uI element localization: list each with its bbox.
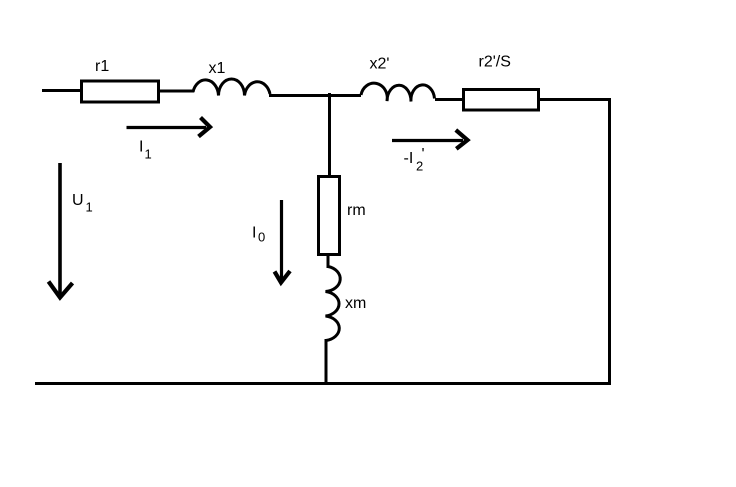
current arrow I1 shaft [127, 126, 207, 129]
svg-text:': ' [422, 146, 425, 163]
wire: bottom rail [35, 382, 611, 385]
inductor L1 (x1) [193, 79, 270, 96]
inductor L2 (x2') [361, 83, 435, 101]
current arrow I0 head [275, 271, 291, 283]
wire: top-left lead into r1 [42, 89, 81, 92]
wire: node T to x2' [329, 94, 361, 97]
svg-text:x2': x2' [370, 56, 390, 73]
svg-text:I: I [139, 138, 143, 155]
svg-text:-I: -I [404, 150, 414, 167]
wire: node T down to rm [328, 93, 331, 177]
wire: rm to xm stub [327, 254, 330, 268]
current arrow I0 shaft [280, 200, 283, 280]
wire: xm to bottom rail [325, 339, 328, 385]
wire: r1 to x1 [160, 90, 194, 93]
svg-text:r1: r1 [95, 58, 109, 75]
svg-text:U: U [72, 192, 84, 209]
svg-text:rm: rm [347, 202, 366, 219]
resistor R2 (r2'/S) [464, 90, 539, 111]
svg-text:1: 1 [145, 147, 152, 162]
svg-text:I: I [252, 224, 256, 241]
wire: x2' to r2'/S [435, 98, 464, 101]
voltage arrow U1 head [49, 282, 73, 298]
current arrow -I2' shaft [392, 139, 463, 142]
wire: r2'/S to right rail [539, 98, 611, 101]
wire: x1 to node T [269, 94, 331, 97]
svg-text:xm: xm [345, 295, 366, 312]
wire: right rail vertical [608, 98, 611, 385]
resistor R1 (r1) [82, 81, 159, 102]
current arrow I1 head [199, 118, 211, 137]
inductor Lm (xm) [326, 267, 341, 341]
svg-text:1: 1 [86, 200, 93, 215]
svg-text:r2'/S: r2'/S [479, 54, 511, 71]
voltage arrow U1 shaft [58, 163, 62, 296]
current arrow -I2' head [456, 130, 468, 149]
resistor Rm (rm) [319, 177, 340, 255]
svg-text:x1: x1 [209, 60, 226, 77]
svg-text:0: 0 [258, 230, 265, 245]
